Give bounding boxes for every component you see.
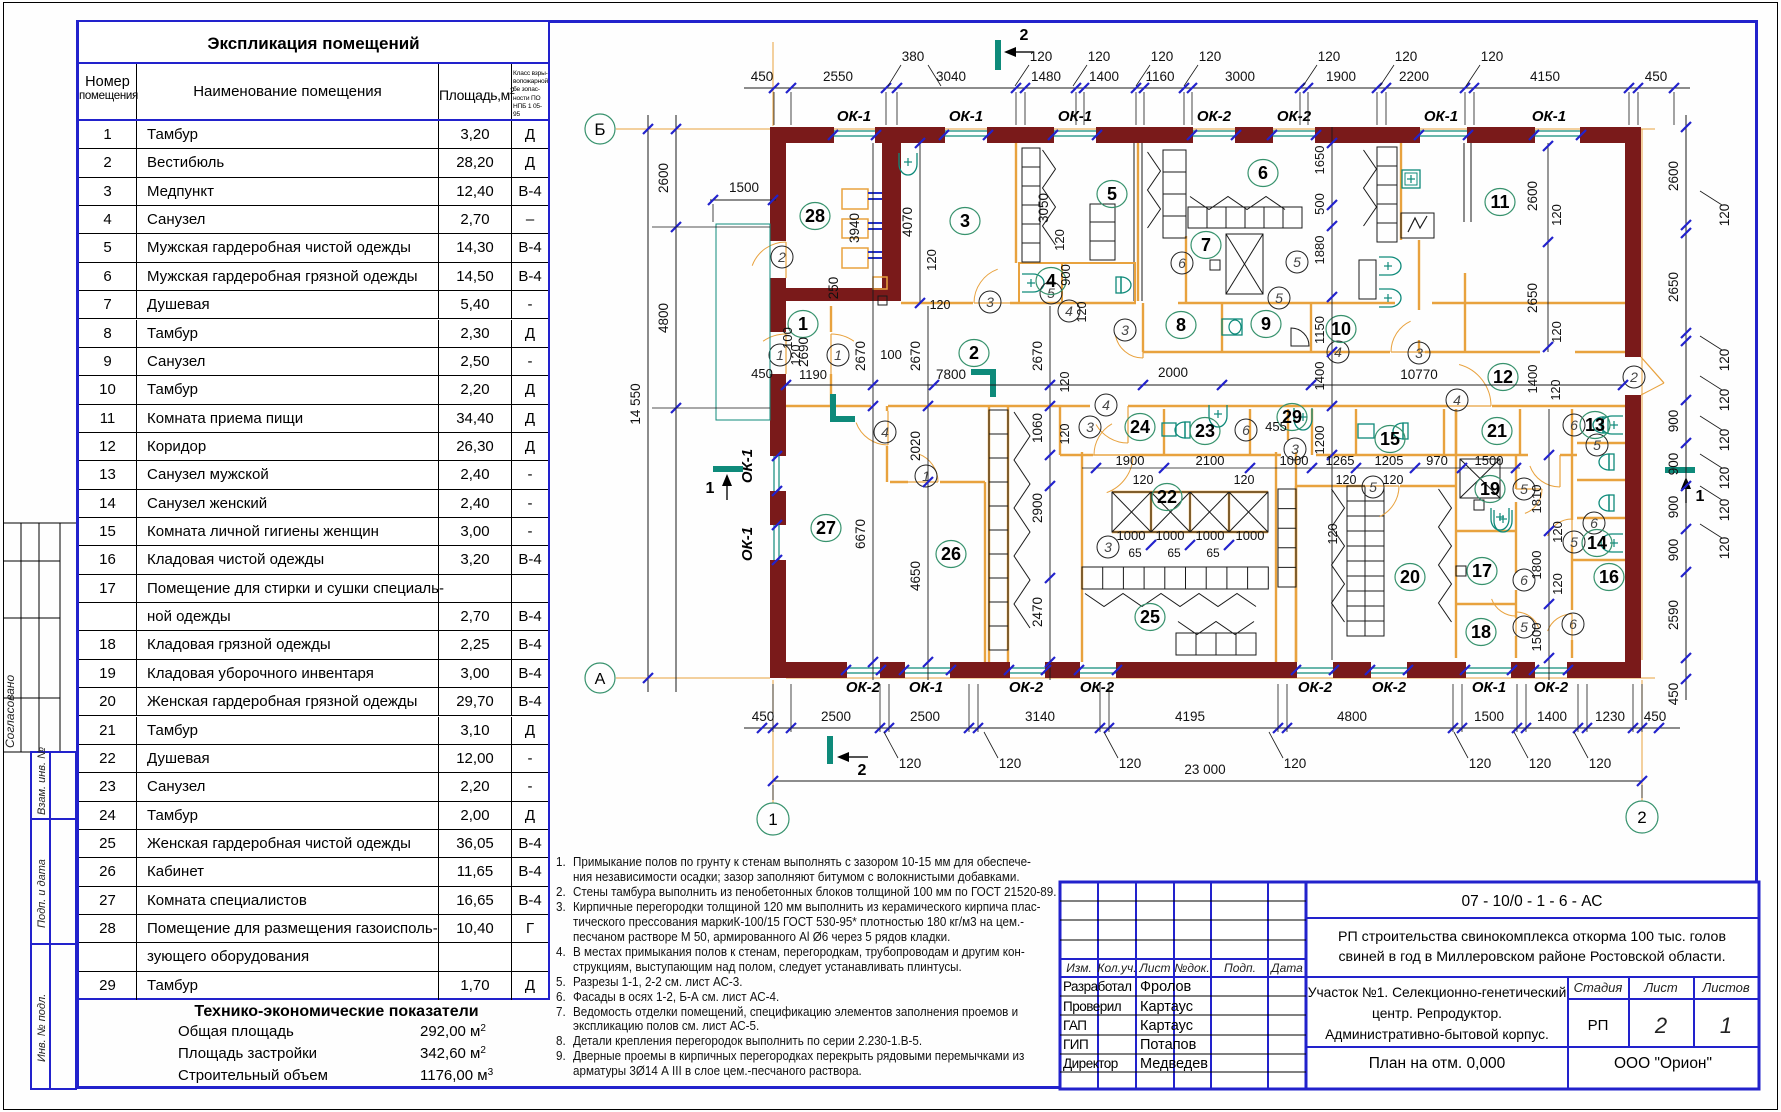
svg-text:3: 3 (1086, 419, 1094, 435)
svg-text:5: 5 (1520, 481, 1528, 497)
svg-text:3940: 3940 (847, 213, 862, 243)
svg-text:65: 65 (1128, 546, 1142, 560)
room circle 6 (1248, 160, 1278, 187)
door number circle 1 (827, 344, 849, 366)
svg-text:120: 120 (1549, 204, 1564, 226)
lockers room3 wall (1022, 148, 1040, 262)
door number circle 5 (1563, 531, 1585, 553)
basin room4 (1022, 274, 1044, 292)
door number circle 1 (769, 344, 791, 366)
door number circle 4 (874, 421, 896, 443)
room circle 22 (1152, 484, 1182, 511)
svg-text:120: 120 (1058, 372, 1072, 393)
boiler equipment room28 (842, 189, 868, 209)
svg-text:1400: 1400 (1525, 365, 1540, 394)
room22|25 left wall x1082 (1081, 452, 1083, 662)
room25 left wall lockers (988, 406, 990, 662)
room circle 15 (1375, 426, 1405, 453)
svg-text:120: 120 (1199, 49, 1222, 64)
svg-text:10: 10 (1331, 319, 1351, 339)
svg-text:120: 120 (789, 345, 803, 366)
door arc 20 (1379, 486, 1399, 517)
room circle 27 (811, 515, 841, 542)
svg-text:ОК-2: ОК-2 (1197, 108, 1232, 125)
svg-text:14 550: 14 550 (628, 383, 643, 424)
door arc entry right (1641, 357, 1664, 383)
svg-text:1500: 1500 (1475, 453, 1504, 468)
svg-text:9: 9 (1261, 314, 1271, 334)
room circle 18 (1466, 619, 1496, 646)
interior dim x1549 south (1548, 409, 1550, 680)
svg-text:1: 1 (834, 347, 842, 363)
svg-text:ОК-1: ОК-1 (1058, 108, 1092, 125)
quarter door room9 (1291, 328, 1309, 346)
svg-text:900: 900 (1666, 496, 1681, 519)
svg-text:2590: 2590 (1666, 600, 1681, 630)
svg-text:ОК-1: ОК-1 (1472, 679, 1506, 696)
svg-text:3140: 3140 (1025, 709, 1055, 724)
wc fixtures rooms13-14 (1599, 454, 1614, 470)
room20 top wall y486 (1296, 485, 1365, 487)
svg-text:4070: 4070 (900, 207, 915, 237)
wc block left wall x1572 (1571, 409, 1573, 520)
svg-text:500: 500 (1312, 193, 1327, 215)
door number circle 2 (771, 246, 793, 268)
svg-text:1160: 1160 (1145, 69, 1174, 84)
svg-text:120: 120 (1549, 321, 1564, 343)
svg-text:ОК-2: ОК-2 (1080, 679, 1115, 696)
room circle 7 (1191, 232, 1221, 259)
wardrobe room6 vertical (1163, 150, 1186, 238)
door arc room24 (1096, 425, 1128, 444)
door number circle 5 (1362, 476, 1384, 498)
svg-text:5: 5 (1570, 534, 1578, 550)
svg-text:3: 3 (986, 294, 994, 310)
interior dim x1050 (1049, 306, 1051, 680)
svg-text:ОК-1: ОК-1 (949, 108, 983, 125)
shower cell dividers room22 (1150, 492, 1152, 532)
door arc 16 (1530, 466, 1560, 487)
svg-text:455: 455 (1265, 419, 1287, 434)
svg-text:ОК-1: ОК-1 (1532, 108, 1566, 125)
svg-text:1000: 1000 (1117, 528, 1146, 543)
svg-text:1205: 1205 (1375, 453, 1404, 468)
door arc 22 (1107, 455, 1133, 493)
svg-text:15: 15 (1380, 429, 1400, 449)
bottom dimension chain (744, 727, 1680, 729)
svg-text:120: 120 (1119, 756, 1142, 771)
svg-text:6: 6 (1570, 417, 1578, 433)
kitchen counter room11 (1377, 147, 1397, 242)
svg-text:1400: 1400 (1537, 709, 1567, 724)
svg-text:А: А (595, 671, 606, 688)
svg-text:ОК-2: ОК-2 (846, 679, 881, 696)
lockers room6 row (1188, 207, 1302, 228)
svg-text:1400: 1400 (1312, 362, 1327, 391)
door number circle 5 (1586, 434, 1608, 456)
axis line 1 (vertical) (772, 42, 774, 126)
section mark 2 bottom (827, 736, 833, 764)
svg-text:450: 450 (751, 366, 773, 381)
interior dim x1548 (1547, 143, 1549, 352)
svg-text:100: 100 (880, 347, 902, 362)
xbox room19 (1460, 459, 1500, 498)
svg-text:2650: 2650 (1525, 283, 1540, 313)
door number circle 3 (1079, 416, 1101, 438)
svg-text:900: 900 (1666, 539, 1681, 562)
svg-text:ОК-2: ОК-2 (1277, 108, 1312, 125)
room circle 13 (1580, 412, 1610, 439)
svg-text:4150: 4150 (1530, 69, 1560, 84)
exterior wall left (770, 127, 786, 241)
svg-text:1265: 1265 (1326, 453, 1355, 468)
door arc room27 (856, 423, 888, 445)
svg-text:5: 5 (1107, 184, 1117, 204)
svg-text:1500: 1500 (1529, 623, 1544, 652)
svg-text:450: 450 (1645, 69, 1668, 84)
south band dividers (1059, 406, 1061, 455)
svg-text:120: 120 (1326, 524, 1340, 545)
svg-text:120: 120 (1284, 756, 1307, 771)
room11 stub partition (1464, 273, 1466, 352)
door number circle 1 (915, 465, 937, 487)
svg-text:2: 2 (969, 343, 979, 363)
door arc room26 (918, 454, 938, 482)
room circle 11 (1485, 189, 1515, 216)
tambour room28 wall right (882, 143, 901, 301)
svg-text:1230: 1230 (1595, 709, 1625, 724)
wall x1276-1296 lockers (1275, 452, 1277, 662)
door number circle 3 (979, 291, 1001, 313)
door arc 14 (1548, 519, 1572, 536)
svg-text:3050: 3050 (1036, 193, 1051, 223)
svg-text:14: 14 (1587, 533, 1607, 553)
section mark 1 left (713, 466, 743, 472)
basin corridor17 (1491, 508, 1509, 530)
svg-text:11: 11 (1490, 192, 1509, 212)
door number circle 4 (1446, 389, 1468, 411)
svg-text:Б: Б (594, 120, 605, 139)
room circle 25 (1135, 604, 1165, 631)
svg-text:3: 3 (960, 211, 970, 231)
svg-text:28: 28 (805, 206, 825, 226)
corridor strip right wall x1516 (1515, 456, 1517, 489)
room circle 1 (788, 311, 818, 338)
locker row below room22 (1082, 567, 1268, 589)
svg-text:1: 1 (1696, 488, 1705, 505)
room27|26 wall x887 (886, 406, 888, 411)
door number circle 3 (1284, 438, 1306, 460)
svg-text:2: 2 (858, 762, 867, 779)
svg-text:120: 120 (1075, 302, 1089, 323)
room circle 5 (1097, 181, 1127, 208)
porch line (716, 419, 770, 421)
door number circle 3 (1097, 536, 1119, 558)
svg-text:17: 17 (1472, 561, 1492, 581)
svg-text:65: 65 (1206, 546, 1220, 560)
svg-text:900: 900 (1666, 453, 1681, 476)
room20|17 wall x1456 (1455, 409, 1457, 658)
door arc room11 (1391, 321, 1411, 352)
partition rooms6|11 x1419 (1400, 143, 1402, 240)
svg-text:120: 120 (1717, 389, 1732, 412)
room circle 17 (1467, 558, 1497, 585)
svg-text:120: 120 (1383, 473, 1404, 487)
svg-text:12: 12 (1493, 367, 1513, 387)
svg-text:120: 120 (924, 249, 939, 271)
svg-text:1900: 1900 (1116, 453, 1145, 468)
door number circle 3 (1408, 342, 1430, 364)
svg-text:120: 120 (1151, 49, 1174, 64)
corridor top wall y352 (1143, 351, 1390, 353)
svg-text:5: 5 (1593, 437, 1601, 453)
svg-text:65: 65 (1167, 546, 1181, 560)
svg-text:120: 120 (899, 756, 922, 771)
technical economic indicators (77, 1000, 550, 1089)
sanitary cell walls room4 (1019, 263, 1062, 303)
svg-text:6: 6 (1569, 616, 1577, 632)
partition room3|5 x1016 (1015, 143, 1017, 263)
door arc room3 (974, 269, 998, 303)
svg-text:2200: 2200 (1399, 69, 1429, 84)
door number circle 4 (1058, 300, 1080, 322)
dim 1500 top left (710, 199, 776, 201)
room circle 3 (950, 208, 980, 235)
stamp box inv n podl (31, 944, 76, 1089)
door number circle 6 (1235, 419, 1257, 441)
svg-text:2550: 2550 (823, 69, 853, 84)
svg-text:1: 1 (768, 810, 777, 829)
title block grid (1060, 882, 1759, 1089)
axis circle B (585, 114, 615, 144)
svg-text:120: 120 (1549, 380, 1563, 401)
svg-text:22: 22 (1157, 487, 1177, 507)
door number circle 6 (1513, 569, 1535, 591)
svg-text:2500: 2500 (910, 709, 940, 724)
svg-text:23: 23 (1195, 421, 1215, 441)
room26 right wall x985 (984, 482, 986, 662)
svg-text:4: 4 (1334, 344, 1342, 360)
partition room5|6 x1138 (1137, 143, 1139, 301)
room circle 24 (1125, 414, 1155, 441)
svg-text:1810: 1810 (1529, 485, 1544, 514)
svg-text:120: 120 (1550, 521, 1565, 543)
svg-text:5: 5 (1293, 254, 1301, 270)
svg-text:20: 20 (1400, 567, 1420, 587)
room circle 26 (936, 541, 966, 568)
door number circle 6 (1562, 613, 1584, 635)
basin room23 (1209, 405, 1227, 427)
svg-text:1800: 1800 (1529, 551, 1544, 580)
svg-text:120: 120 (1529, 756, 1552, 771)
room17 room18 wall y604 (1456, 603, 1516, 605)
svg-text:3: 3 (1121, 322, 1129, 338)
room29 partition (1287, 409, 1289, 440)
door number circle 5 (1286, 251, 1308, 273)
svg-text:2600: 2600 (1525, 181, 1540, 211)
room26 top wall y482 (890, 481, 908, 483)
svg-text:1150: 1150 (1312, 316, 1327, 344)
stamp box vzam inv (31, 752, 76, 819)
svg-text:970: 970 (1426, 453, 1448, 468)
section corner mark a (833, 394, 855, 419)
svg-text:8: 8 (1176, 315, 1186, 335)
svg-text:10770: 10770 (1400, 367, 1438, 382)
svg-text:120: 120 (999, 756, 1022, 771)
interior dim x920 top (919, 143, 921, 303)
svg-text:900: 900 (1058, 264, 1073, 286)
right dimension chain (1685, 115, 1687, 700)
svg-text:120: 120 (1589, 756, 1612, 771)
basin room3 (899, 153, 917, 175)
door number circle 3 (1114, 319, 1136, 341)
svg-text:4650: 4650 (908, 561, 923, 591)
svg-text:120: 120 (1717, 429, 1732, 452)
corridor bottom wall y406 (786, 405, 871, 407)
svg-text:2900: 2900 (1030, 493, 1045, 523)
shaft room10 (1359, 260, 1376, 299)
tambour room28 wall bottom (786, 288, 901, 301)
svg-text:27: 27 (816, 518, 836, 538)
room circle 8 (1166, 312, 1196, 339)
svg-text:ОК-1: ОК-1 (909, 679, 943, 696)
svg-text:4195: 4195 (1175, 709, 1205, 724)
tambour1 wall x831 (830, 306, 832, 332)
svg-text:25: 25 (1140, 607, 1160, 627)
svg-text:120: 120 (1058, 424, 1072, 445)
svg-text:2000: 2000 (1158, 365, 1188, 380)
svg-text:1060: 1060 (1030, 413, 1045, 443)
showers room22 (1112, 492, 1151, 532)
door arc 16b (1548, 614, 1572, 631)
interior dim x928 (927, 306, 929, 680)
svg-text:2: 2 (777, 249, 786, 265)
door number circle 6 (1563, 414, 1585, 436)
room20 left wall (1295, 486, 1297, 662)
svg-text:5: 5 (1275, 290, 1283, 306)
svg-text:4: 4 (1102, 397, 1110, 413)
svg-text:1500: 1500 (1474, 709, 1504, 724)
svg-text:1: 1 (706, 480, 715, 497)
svg-text:3040: 3040 (936, 69, 966, 84)
svg-text:6670: 6670 (853, 519, 868, 549)
exterior wall top (770, 127, 833, 143)
svg-text:450: 450 (752, 709, 775, 724)
svg-text:3000: 3000 (1225, 69, 1255, 84)
svg-text:2650: 2650 (1666, 272, 1681, 302)
door number circle 6 (1583, 512, 1605, 534)
svg-text:4800: 4800 (1337, 709, 1367, 724)
axis line A (horizontal) (616, 677, 770, 679)
axis circle A (585, 663, 615, 693)
wc room15 (1393, 423, 1408, 439)
sink unit room11 (1402, 170, 1420, 188)
svg-text:1000: 1000 (1156, 528, 1185, 543)
door arc s18 (1516, 612, 1539, 628)
svg-text:2600: 2600 (1666, 161, 1681, 191)
svg-text:120: 120 (1318, 49, 1341, 64)
interior dim x1332 (1331, 127, 1333, 660)
cabinet column room20 (1347, 486, 1365, 636)
svg-text:120: 120 (1395, 49, 1418, 64)
svg-text:120: 120 (1469, 756, 1492, 771)
overall dim 23000 (773, 780, 1642, 782)
partition top rooms bottom y303 (901, 302, 973, 304)
exterior wall bottom (770, 662, 846, 678)
basin room19 (1494, 510, 1512, 532)
svg-text:1900: 1900 (1326, 69, 1356, 84)
door arc 8 (1115, 335, 1143, 358)
svg-text:ОК-2: ОК-2 (1009, 679, 1044, 696)
door arc room28 entry (752, 242, 786, 266)
interior dim x873 (872, 143, 874, 680)
room circle 9 (1251, 311, 1281, 338)
svg-text:6: 6 (1520, 572, 1528, 588)
svg-text:120: 120 (1717, 467, 1732, 490)
axis circle 2 (1626, 801, 1658, 833)
partition band x1143 (1142, 303, 1144, 352)
partition band x1222 (1221, 303, 1223, 352)
svg-text:2: 2 (1020, 27, 1029, 44)
svg-text:120: 120 (1717, 537, 1732, 560)
svg-text:1400: 1400 (1089, 69, 1119, 84)
axis line B (horizontal) (616, 128, 770, 130)
svg-text:4: 4 (881, 424, 889, 440)
door number circle 4 (1095, 394, 1117, 416)
svg-text:3: 3 (1104, 539, 1112, 555)
svg-text:120: 120 (1234, 473, 1255, 487)
svg-text:6: 6 (1178, 255, 1186, 271)
south rooms bottom wall y455 (1060, 454, 1093, 456)
door number circle 5 (1268, 287, 1290, 309)
svg-text:120: 120 (1550, 573, 1565, 595)
door number circle 5 (1513, 616, 1535, 638)
basins room10 (1379, 257, 1401, 275)
svg-text:2600: 2600 (656, 163, 671, 193)
boiler links blue (868, 192, 882, 194)
svg-text:250: 250 (826, 277, 841, 300)
room circle 2 (959, 340, 989, 367)
small square room19 (1474, 500, 1484, 510)
svg-text:120: 120 (1052, 229, 1067, 251)
svg-text:900: 900 (1666, 410, 1681, 433)
door arc band3 (1094, 424, 1112, 455)
svg-text:2470: 2470 (1030, 597, 1045, 627)
svg-text:4800: 4800 (656, 303, 671, 333)
door arc s19 (1525, 489, 1542, 513)
svg-text:2670: 2670 (1030, 341, 1045, 371)
room circle 10 (1326, 316, 1356, 343)
svg-text:16: 16 (1599, 567, 1619, 587)
left dimension chains (675, 115, 677, 692)
svg-text:120: 120 (1717, 349, 1732, 372)
door arc tambour1 a (763, 334, 786, 341)
notes list (556, 855, 1057, 1079)
interior hdim y385 (786, 384, 1623, 386)
svg-text:4: 4 (1453, 392, 1461, 408)
door arc s17 (1492, 599, 1516, 616)
wc room23 (1175, 422, 1190, 438)
svg-text:1: 1 (798, 314, 808, 334)
svg-text:23 000: 23 000 (1184, 762, 1225, 777)
svg-text:5: 5 (1520, 619, 1528, 635)
axis line 2 (vertical) (1641, 129, 1643, 660)
room circle 23 (1190, 418, 1220, 445)
svg-text:7800: 7800 (936, 367, 966, 382)
locker ladder wall 25|20 (1278, 489, 1296, 587)
door arc corridor4 (1459, 365, 1491, 407)
explication table (77, 20, 550, 1000)
